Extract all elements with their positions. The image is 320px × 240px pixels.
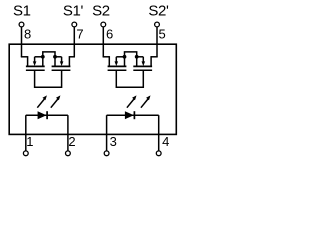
wire Q2 body-source tie bbox=[55, 56, 62, 58]
wire Q1 body-source tie bbox=[35, 56, 43, 58]
LED D2 triangle bbox=[125, 111, 134, 119]
transistor Q1 channel plate bbox=[26, 65, 45, 67]
light arrow ch2 b bbox=[141, 99, 148, 108]
wire pin1 column bbox=[25, 115, 27, 151]
wire pin6 to drain Q3 bbox=[103, 56, 110, 58]
svg-text:S1': S1' bbox=[63, 3, 84, 20]
wire LED1 rail bbox=[26, 114, 68, 116]
junction dot Q3 source bbox=[123, 55, 127, 59]
terminal S1 (pin 8) bbox=[19, 22, 24, 27]
LED D1 triangle bbox=[38, 111, 47, 119]
package outline box bbox=[9, 44, 176, 134]
wire drain Q2 to pin7 bbox=[69, 56, 75, 58]
wire common source bridge ch1 bbox=[43, 52, 55, 57]
svg-text:8: 8 bbox=[24, 26, 31, 41]
transistor Q3 body arrow bbox=[115, 57, 117, 62]
wire pin8 to drain Q1 bbox=[21, 56, 28, 58]
transistor Q1 gate bar bbox=[26, 69, 45, 71]
wire Q4 body-source tie bbox=[137, 56, 144, 58]
wire pin7 lead bbox=[73, 27, 75, 57]
transistor Q3 source contact bbox=[124, 57, 126, 66]
junction dot Q4 source bbox=[135, 55, 139, 59]
wire Q3 body-source tie bbox=[116, 56, 124, 58]
photodiode array U1 (gate drive loop ch1) bbox=[35, 70, 62, 87]
svg-text:4: 4 bbox=[162, 134, 169, 149]
svg-text:2: 2 bbox=[68, 134, 75, 149]
transistor Q4 source contact bbox=[136, 57, 138, 66]
transistor Q2 source contact bbox=[54, 57, 56, 66]
wire LED2 rail bbox=[107, 114, 159, 116]
wire pin3 column bbox=[106, 115, 108, 151]
svg-text:6: 6 bbox=[106, 26, 113, 41]
transistor Q3 gate bar bbox=[108, 69, 127, 71]
photodiode array U2 (gate drive loop ch2) bbox=[116, 70, 143, 87]
wire pin8 lead bbox=[21, 27, 23, 57]
wire pin6 lead bbox=[102, 27, 104, 57]
light arrow ch2 a bbox=[127, 99, 134, 108]
wire pin2 column bbox=[67, 115, 69, 151]
transistor Q2 drain contact bbox=[68, 56, 70, 66]
svg-text:3: 3 bbox=[110, 134, 117, 149]
terminal S2 (pin 6) bbox=[101, 22, 106, 27]
junction dot Q2 source bbox=[53, 55, 57, 59]
svg-text:5: 5 bbox=[159, 26, 166, 41]
terminal S1' (pin 7) bbox=[72, 22, 77, 27]
terminal pin 1 bbox=[23, 151, 28, 156]
terminal pin 2 bbox=[66, 151, 71, 156]
transistor Q2 channel plate bbox=[52, 65, 71, 67]
svg-text:S1: S1 bbox=[13, 3, 31, 20]
transistor Q1 body arrow bbox=[34, 57, 36, 62]
transistor Q4 body arrow bbox=[142, 57, 144, 62]
transistor Q2 body arrow bbox=[61, 57, 63, 62]
transistor Q4 drain contact bbox=[150, 56, 152, 66]
LED D2 cathode bar bbox=[133, 111, 135, 119]
svg-text:7: 7 bbox=[76, 26, 83, 41]
light arrow ch1 b bbox=[51, 99, 58, 108]
transistor Q2 gate bar bbox=[52, 69, 71, 71]
transistor Q4 gate bar bbox=[133, 69, 152, 71]
wire drain Q4 to pin5 bbox=[151, 56, 158, 58]
junction dot Q1 source bbox=[41, 55, 45, 59]
terminal S2' (pin 5) bbox=[155, 22, 160, 27]
LED D1 cathode bar bbox=[46, 111, 48, 119]
transistor Q1 drain contact bbox=[27, 56, 29, 66]
terminal pin 4 bbox=[156, 151, 161, 156]
svg-text:S2': S2' bbox=[148, 3, 169, 20]
light arrow ch1 a bbox=[37, 99, 44, 108]
transistor Q1 source contact bbox=[42, 57, 44, 66]
svg-text:S2: S2 bbox=[92, 3, 110, 20]
wire common source bridge ch2 bbox=[125, 52, 137, 57]
wire pin4 column bbox=[158, 115, 160, 151]
transistor Q3 drain contact bbox=[108, 56, 110, 66]
transistor Q3 channel plate bbox=[108, 65, 127, 67]
transistor Q4 channel plate bbox=[133, 65, 152, 67]
svg-text:1: 1 bbox=[26, 134, 33, 149]
wire pin5 lead bbox=[156, 27, 158, 57]
terminal pin 3 bbox=[104, 151, 109, 156]
